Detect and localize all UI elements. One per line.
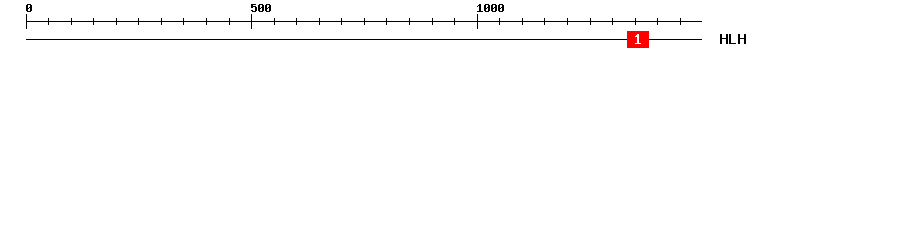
minor tick 800 — [386, 18, 387, 25]
minor tick 50 — [48, 18, 49, 25]
minor tick 250 — [138, 18, 139, 25]
domain number 1 — [635, 34, 641, 44]
minor tick 350 — [183, 18, 184, 25]
ruler label 0 — [26, 4, 32, 12]
minor tick 450 — [229, 18, 230, 25]
minor tick 1150 — [544, 18, 545, 25]
protein backbone line — [26, 39, 702, 40]
minor tick 700 — [341, 18, 342, 25]
ruler label 500 — [251, 4, 271, 12]
minor tick 950 — [454, 18, 455, 25]
minor tick 1300 — [612, 18, 613, 25]
ruler label 1000 — [477, 4, 504, 12]
minor tick 300 — [161, 18, 162, 25]
background — [0, 0, 900, 58]
minor tick 900 — [432, 18, 433, 25]
minor tick 600 — [296, 18, 297, 25]
minor tick 650 — [319, 18, 320, 25]
minor tick 850 — [409, 18, 410, 25]
major tick 500 — [251, 14, 252, 29]
minor tick 1400 — [657, 18, 658, 25]
minor tick 550 — [274, 18, 275, 25]
minor tick 1250 — [590, 18, 591, 25]
minor tick 1350 — [635, 18, 636, 25]
minor tick 200 — [116, 18, 117, 25]
minor tick 750 — [364, 18, 365, 25]
minor tick 150 — [93, 18, 94, 25]
major tick 1000 — [477, 14, 478, 29]
major tick 0 — [26, 14, 27, 29]
minor tick 400 — [206, 18, 207, 25]
minor tick 1450 — [680, 18, 681, 25]
domain box 1 (red) — [627, 31, 649, 48]
ruler baseline — [26, 21, 702, 22]
minor tick 1100 — [522, 18, 523, 25]
minor tick 1200 — [567, 18, 568, 25]
family label HLH — [720, 34, 746, 44]
minor tick 100 — [71, 18, 72, 25]
minor tick 1050 — [499, 18, 500, 25]
